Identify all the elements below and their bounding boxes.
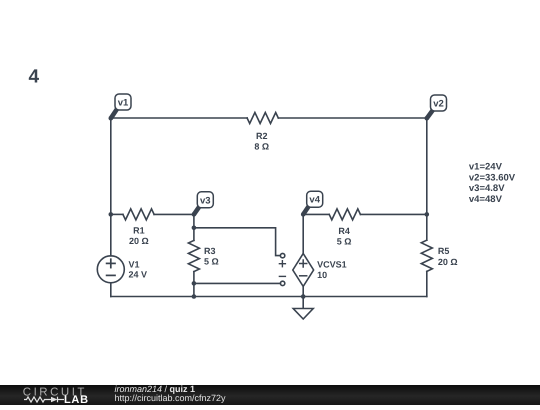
junction dot control top — [192, 226, 197, 231]
junction dot R4 right — [425, 212, 430, 217]
junction dot R1 left — [109, 212, 114, 217]
svg-text:v4: v4 — [309, 195, 320, 206]
wire top rail right of R2 — [278, 117, 427, 119]
resistor R2 — [247, 113, 278, 124]
V1 plus sign — [107, 259, 115, 267]
svg-text:24 V: 24 V — [129, 270, 148, 280]
svg-text:R4: R4 — [338, 226, 350, 236]
wire R4 to right rail — [360, 213, 426, 215]
wire right vertical upper — [426, 118, 428, 240]
svg-text:R5: R5 — [438, 246, 450, 256]
CircuitLab logo resistor zigzag and diode — [24, 397, 64, 403]
svg-text:v4=48V: v4=48V — [469, 194, 503, 205]
junction dot R3 bottom rail — [192, 294, 197, 299]
wire VCVS1 bottom to rail — [302, 286, 304, 296]
wire R1 to v3 node — [154, 213, 194, 215]
svg-text:8 Ω: 8 Ω — [254, 141, 269, 151]
svg-text:v3: v3 — [200, 195, 211, 206]
flag v1 — [111, 94, 131, 118]
svg-text:LAB: LAB — [64, 394, 89, 405]
node v4 junction dot — [301, 212, 306, 217]
resistor R1 — [123, 209, 154, 220]
svg-text:10: 10 — [317, 270, 327, 280]
resistor R5 — [421, 240, 432, 271]
svg-text:http://circuitlab.com/cfnz72y: http://circuitlab.com/cfnz72y — [115, 393, 227, 403]
svg-text:20 Ω: 20 Ω — [129, 236, 149, 246]
svg-text:v3=4.8V: v3=4.8V — [469, 183, 505, 194]
ground symbol — [293, 309, 313, 320]
wire control branch bottom — [194, 282, 281, 284]
V1 minus sign — [107, 274, 115, 276]
wire control branch top — [194, 228, 281, 256]
wire R1 left lead — [111, 213, 123, 215]
svg-text:5 Ω: 5 Ω — [204, 256, 219, 266]
junction dot control bottom — [192, 281, 197, 286]
flag v4 — [303, 191, 323, 214]
wire top rail left of R2 — [111, 117, 247, 119]
svg-text:R3: R3 — [204, 246, 216, 256]
svg-text:20 Ω: 20 Ω — [438, 257, 458, 267]
svg-text:v1=24V: v1=24V — [469, 161, 503, 172]
svg-text:4: 4 — [29, 67, 40, 88]
svg-text:v2: v2 — [433, 99, 444, 110]
wire bottom rail — [111, 296, 427, 298]
svg-text:R2: R2 — [256, 131, 268, 141]
flag v3 — [194, 192, 213, 215]
control terminal - circle — [280, 281, 284, 285]
wire R5 bottom to rail — [426, 271, 428, 296]
wire left vertical upper — [110, 118, 112, 256]
svg-text:v1: v1 — [118, 98, 129, 109]
control minus sign — [279, 275, 285, 277]
control terminal + circle — [280, 253, 284, 257]
VCVS1 plus sign — [300, 260, 307, 267]
svg-text:5 Ω: 5 Ω — [337, 236, 352, 246]
svg-text:R1: R1 — [133, 226, 145, 236]
wire R3 bottom to rail — [193, 272, 195, 297]
svg-text:VCVS1: VCVS1 — [317, 260, 347, 270]
wire R4 left lead — [303, 213, 329, 215]
wire v3 vertical upper — [193, 214, 195, 240]
svg-text:V1: V1 — [129, 259, 140, 269]
wire V1 bottom to rail — [110, 283, 112, 297]
VCVS1 minus sign — [300, 275, 307, 277]
wire v4 to VCVS1 — [302, 214, 304, 253]
node v1 junction dot — [109, 116, 114, 121]
dependent source VCVS1 diamond — [293, 254, 314, 287]
node v2 junction dot — [425, 116, 430, 121]
svg-text:v2=33.60V: v2=33.60V — [469, 172, 516, 183]
resistor R3 — [188, 240, 199, 271]
resistor R4 — [329, 209, 360, 220]
flag v2 — [427, 95, 447, 118]
ground stem — [302, 297, 304, 309]
voltage source V1 — [97, 256, 124, 283]
control plus sign — [279, 261, 285, 267]
node v3 junction dot — [192, 212, 197, 217]
junction dot VCVS1 rail — [301, 294, 306, 299]
